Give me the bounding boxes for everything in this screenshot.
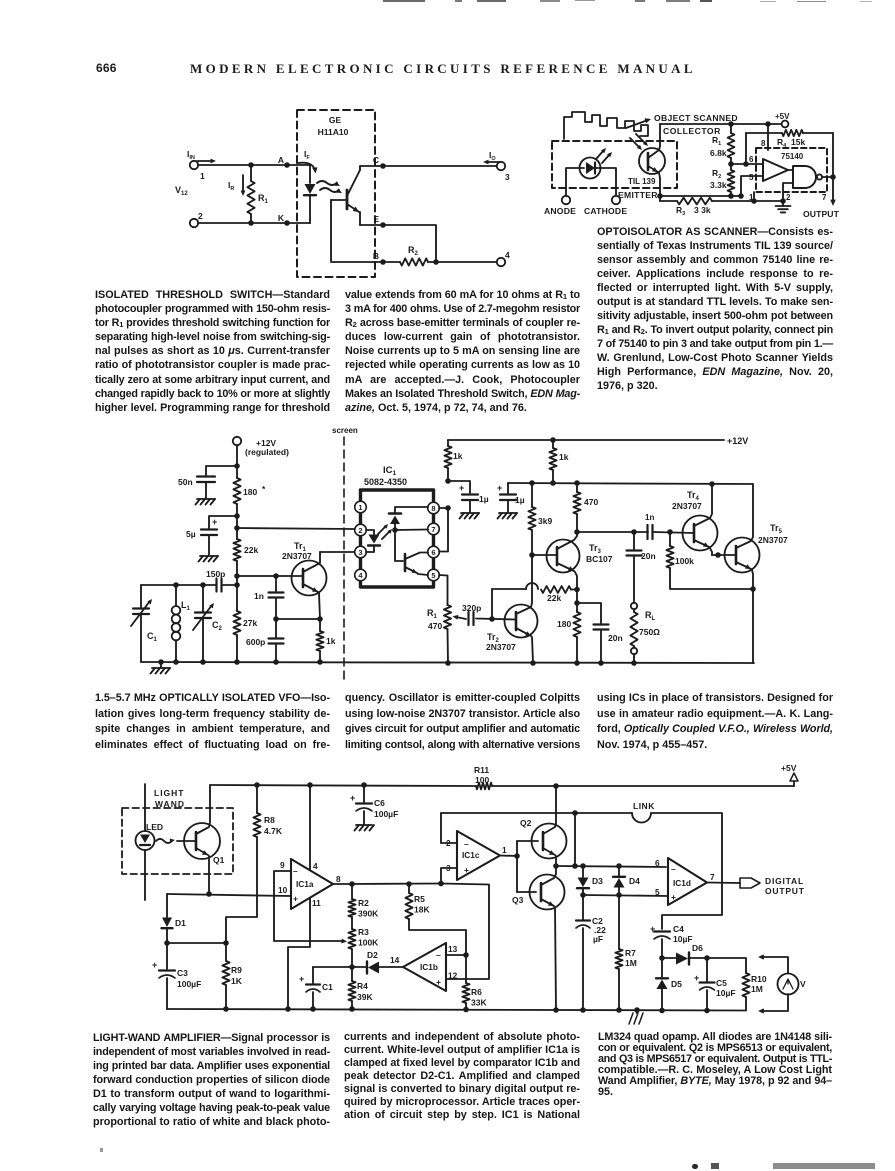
diode D1 (162, 894, 187, 943)
svg-text:50n: 50n (178, 477, 193, 487)
caption text: optoisolator as scanner (597, 225, 833, 393)
svg-text:R2: R2 (358, 898, 369, 908)
label GE H11A10 (318, 115, 349, 137)
svg-text:100K: 100K (358, 938, 379, 948)
svg-text:C2: C2 (212, 620, 223, 632)
resistor R4 39K (348, 967, 373, 1009)
ground circuit2 (776, 198, 791, 212)
svg-text:22k: 22k (547, 593, 561, 603)
light wand pen line (144, 784, 146, 900)
IC1b pin13 wire (446, 952, 469, 958)
label I_IN with arrow (187, 149, 216, 163)
svg-text:1: 1 (749, 193, 754, 202)
svg-text:1M: 1M (751, 984, 763, 994)
svg-text:1µ: 1µ (479, 494, 489, 504)
label LIGHT WAND (154, 788, 185, 809)
resistor R2 3.3k (710, 164, 734, 196)
link net to C4 (651, 813, 722, 929)
dashed package outline GE H11A10 (297, 110, 375, 277)
wire rail to IC1 pin 2 (234, 525, 354, 531)
svg-text:C: C (373, 155, 379, 165)
arrow to OBJECT SCANNED (626, 118, 651, 128)
svg-text:–: – (671, 864, 676, 874)
potentiometer R3 100K (348, 927, 379, 967)
pin 6 IC1 (428, 546, 440, 558)
digital output connector (740, 878, 760, 888)
wire 320p to Tr2 base (476, 616, 516, 622)
svg-text:+: + (464, 865, 469, 875)
capacitor C2 .22uF (576, 895, 606, 1010)
svg-text:15k: 15k (791, 137, 805, 147)
peak detector node (659, 955, 676, 961)
caption text: threshold switch col2 (345, 288, 580, 415)
svg-text:14: 14 (390, 955, 400, 965)
svg-text:33K: 33K (471, 998, 487, 1008)
wire pin 8 to 1k node (439, 505, 451, 511)
wire emitter down (657, 178, 663, 201)
wire base of phototransistor to node B (331, 200, 383, 262)
IC1a feedback loop to R3 wiper (274, 871, 347, 944)
pin 1 IC1 (355, 501, 367, 513)
IC1a pin labels (278, 860, 341, 908)
capacitor 1u (right) (497, 483, 525, 519)
svg-text:*: * (262, 484, 266, 494)
resistor 22k (233, 539, 258, 611)
svg-text:8: 8 (336, 874, 341, 884)
resistor R4 15k (746, 130, 833, 149)
node emitter Tr3 (574, 587, 580, 606)
svg-text:V: V (800, 979, 806, 989)
svg-text:1k: 1k (559, 452, 569, 462)
link vertical to output node (574, 813, 576, 866)
capacitor 5u (186, 513, 240, 561)
svg-text:IC1a: IC1a (296, 879, 314, 889)
dashed wand box (122, 808, 233, 874)
svg-text:LINK: LINK (633, 801, 655, 811)
transistor Tr1 (282, 541, 327, 619)
svg-text:R2: R2 (712, 168, 721, 180)
svg-text:10: 10 (278, 885, 288, 895)
light arrows into sensor (630, 134, 648, 150)
IC1 internal photodiode (389, 507, 428, 561)
wire collector to terminal 3 (383, 165, 497, 167)
label I_F with bent arrow (298, 149, 318, 174)
svg-text:R3: R3 (358, 927, 369, 937)
svg-text:R11: R11 (474, 765, 489, 775)
LED emission arrows (596, 148, 612, 163)
capacitor C1 (299, 967, 352, 1009)
svg-text:2: 2 (358, 526, 362, 535)
+12V top rail (448, 436, 748, 446)
caption text: vfo caption col3 (597, 691, 833, 753)
voltmeter bottom lead with arrow (758, 994, 788, 1014)
svg-text:1k: 1k (453, 451, 463, 461)
svg-text:100µF: 100µF (177, 979, 201, 989)
svg-text:ANODE: ANODE (544, 206, 576, 216)
resistor R7 1M (615, 895, 636, 1010)
clamp node wire to IC1d + (580, 892, 668, 898)
IC1c pin labels (446, 838, 507, 873)
LED source of TIL139 (580, 158, 601, 179)
wire to IC1c + input (441, 868, 457, 884)
svg-text:R2: R2 (408, 245, 419, 257)
node C (360, 155, 386, 169)
label screen (332, 426, 358, 435)
transistor Tr2 (486, 555, 538, 663)
svg-text:LIGHT: LIGHT (154, 788, 185, 798)
+5V terminal circuit2 (775, 112, 790, 127)
svg-text:100: 100 (475, 775, 489, 785)
svg-text:1M: 1M (625, 958, 637, 968)
resistor 470 (573, 483, 598, 532)
svg-text:3k9: 3k9 (538, 516, 552, 526)
wire input bottom (terminal 2 to LED cathode) (198, 222, 310, 224)
load resistor RL 750 ohm (630, 603, 660, 663)
resistor 27k (233, 611, 257, 662)
svg-text:+: + (459, 483, 464, 493)
svg-text:WAND: WAND (155, 799, 185, 809)
resistor R2 390K (348, 884, 379, 929)
IC1b pin labels (448, 944, 458, 981)
wire collector vertical (659, 124, 661, 146)
resistor 100k (666, 532, 753, 589)
resistor 22k with hop over collector riser (492, 583, 577, 603)
capacitor 20n (to RL) (627, 532, 656, 603)
svg-text:4: 4 (313, 861, 318, 871)
svg-text:+: + (299, 974, 304, 984)
wire pin 6 branch (439, 508, 448, 552)
wire pin 5 to R1 pot (439, 575, 448, 605)
capacitor 1n (emitter) (254, 576, 284, 619)
bottom ground bus circuit4 (167, 1006, 746, 1013)
svg-text:OUTPUT: OUTPUT (803, 209, 840, 219)
gate second input from ground net (783, 183, 793, 201)
svg-text:+: + (694, 973, 699, 983)
node B (373, 251, 386, 265)
svg-text:1n: 1n (645, 513, 654, 522)
svg-text:+: + (152, 960, 157, 970)
svg-text:3: 3 (358, 548, 362, 557)
svg-text:RL: RL (645, 610, 656, 622)
svg-text:Q1: Q1 (213, 855, 225, 865)
svg-text:V12: V12 (175, 185, 188, 197)
scan artifact dashes top edge (383, 0, 425, 2)
transistor Tr5 (725, 484, 789, 663)
pin 2 label (786, 193, 791, 202)
caption text: vfo caption col1 (95, 691, 330, 753)
svg-text:–: – (293, 866, 298, 876)
svg-text:Q3: Q3 (512, 895, 524, 905)
svg-text:10µF: 10µF (716, 988, 736, 998)
diode D3 (577, 866, 603, 895)
svg-text:3: 3 (505, 172, 510, 182)
svg-text:1k: 1k (326, 636, 336, 646)
IC1a V- line pin11 to bus (288, 898, 310, 1009)
svg-text:A: A (278, 155, 284, 165)
svg-text:5082-4350: 5082-4350 (364, 477, 407, 487)
svg-text:L1: L1 (181, 600, 191, 612)
node D1/C3/R9 (164, 940, 229, 946)
resistor R3 3.3k with bottom wire (660, 198, 783, 218)
wire rail to Tr1 base (237, 573, 302, 579)
svg-text:+: + (436, 977, 441, 987)
svg-text:D6: D6 (692, 943, 703, 953)
diode D4 (613, 866, 640, 895)
svg-text:3.3k: 3.3k (710, 180, 727, 190)
R1 wiper arrow with 320p (453, 615, 467, 620)
label COLLECTOR (663, 126, 721, 136)
wire 1n to emitter junction (273, 616, 323, 622)
svg-text:C1: C1 (147, 631, 158, 643)
wire Tr2 base riser to 22k (491, 589, 493, 619)
svg-text:+: + (212, 517, 217, 527)
op-amp IC1c (457, 831, 500, 880)
svg-text:BC107: BC107 (586, 554, 613, 564)
svg-text:100k: 100k (675, 556, 694, 566)
resistor R1 6.8k (710, 124, 734, 164)
dashed 75140 box (756, 148, 827, 192)
svg-text:R4: R4 (357, 981, 368, 991)
svg-text:320p: 320p (462, 603, 481, 613)
terminal 3 (497, 162, 510, 182)
svg-text:IC1c: IC1c (462, 850, 480, 860)
svg-text:8: 8 (431, 504, 435, 513)
svg-text:5: 5 (655, 887, 660, 897)
push-pull output node wire (553, 863, 666, 869)
voltmeter top lead with arrow (758, 954, 788, 973)
tank top wire (141, 582, 216, 588)
LINK jumper (632, 801, 655, 823)
resistor R6 33K (462, 955, 487, 1009)
resistor R11 100 (474, 765, 794, 789)
svg-text:R1: R1 (258, 193, 269, 205)
diode D2 (352, 950, 403, 974)
pin 3 IC1 (355, 546, 367, 558)
svg-text:1n: 1n (254, 591, 264, 601)
svg-text:1K: 1K (231, 976, 243, 986)
svg-text:D3: D3 (592, 876, 603, 886)
scan artifact marks bottom right (692, 1164, 698, 1169)
page number 666 (96, 61, 117, 75)
svg-text:IO: IO (489, 150, 496, 162)
svg-text:LED: LED (146, 822, 163, 832)
svg-text:600p: 600p (246, 637, 265, 647)
+12V regulated terminal (233, 437, 289, 457)
svg-text:75140: 75140 (781, 152, 804, 161)
resistor R10 1M (707, 958, 767, 1010)
IC1c output to Q2/Q3 bases (500, 841, 538, 892)
capacitor 600p (246, 619, 284, 662)
pin 2 IC1 (355, 524, 367, 536)
svg-text:4.7K: 4.7K (264, 826, 283, 836)
svg-text:D1: D1 (175, 918, 186, 928)
svg-text:Q2: Q2 (520, 818, 532, 828)
svg-text:39K: 39K (357, 992, 373, 1002)
svg-text:OBJECT SCANNED: OBJECT SCANNED (654, 113, 738, 123)
svg-text:+5V: +5V (775, 112, 790, 121)
capacitor C3 100uF (152, 943, 201, 1009)
capacitor 50n (178, 463, 240, 504)
terminal 4 (497, 250, 510, 266)
IC1d output wire (707, 882, 740, 885)
svg-text:+: + (671, 892, 676, 902)
wire top supply rail circuit2 (660, 121, 781, 127)
resistor R1 (247, 162, 268, 226)
svg-text:(regulated): (regulated) (245, 447, 289, 457)
svg-text:IC1b: IC1b (420, 962, 438, 972)
NAND gate 75140 (793, 166, 822, 188)
svg-text:IF: IF (304, 149, 310, 161)
svg-text:C3: C3 (177, 968, 188, 978)
potentiometer R1 470 (427, 605, 451, 663)
node base tap on rail (234, 573, 240, 579)
caption text: isolated threshold switch (95, 288, 330, 415)
svg-text:R7: R7 (625, 948, 636, 958)
IC1 internal LED (366, 530, 380, 552)
IC1b pin12 feedback loop (441, 884, 489, 980)
LED of optocoupler (304, 165, 316, 223)
svg-text:IC1: IC1 (383, 465, 397, 477)
svg-text:2N3707: 2N3707 (758, 535, 788, 545)
svg-text:+12V: +12V (727, 436, 748, 446)
svg-text:470: 470 (428, 621, 442, 631)
svg-text:10µF: 10µF (673, 934, 693, 944)
svg-text:R5: R5 (414, 894, 425, 904)
svg-text:7: 7 (431, 525, 435, 534)
capacitor C4 10uF (650, 924, 693, 958)
wire Tr1 collector to pin 3 (320, 551, 354, 553)
LED of wand (136, 822, 164, 850)
capacitor 1n (coupling) (645, 513, 694, 539)
resistor 3k9 (528, 483, 552, 555)
diode D6 (676, 943, 707, 965)
svg-text:6: 6 (431, 548, 435, 557)
IC1 internal light arrows (378, 524, 392, 539)
caption text: light wand col2 (344, 1031, 580, 1122)
svg-text:R8: R8 (264, 815, 275, 825)
node E (360, 214, 386, 228)
label TIL 139 (628, 177, 656, 186)
transistor Q2 (520, 786, 567, 866)
ground symbol VFO (151, 662, 171, 674)
svg-text:390K: 390K (358, 909, 379, 919)
svg-text:3 3k: 3 3k (694, 205, 711, 215)
svg-text:TIL 139: TIL 139 (628, 177, 656, 186)
svg-text:–: – (436, 950, 441, 960)
svg-text:6.8k: 6.8k (710, 148, 727, 158)
label DIGITAL OUTPUT (765, 876, 805, 896)
svg-text:–: – (464, 839, 469, 849)
svg-text:7: 7 (822, 193, 827, 202)
svg-text:D5: D5 (671, 979, 682, 989)
scanned object castellated outline (564, 112, 648, 139)
pin 8 wire (761, 124, 768, 150)
resistor 1k (left pullup) (444, 440, 462, 481)
transistor Q3 (512, 866, 565, 1010)
svg-text:5: 5 (431, 571, 435, 580)
comparator IC1b (403, 943, 446, 991)
resistor 180 (233, 478, 266, 539)
optical coupling arrows (317, 181, 342, 193)
svg-text:9: 9 (280, 860, 285, 870)
svg-text:2: 2 (786, 193, 791, 202)
svg-text:20n: 20n (641, 551, 656, 561)
wire cathode lead to terminal (600, 168, 616, 196)
running head title (190, 61, 690, 77)
ground symbol circuit4 (629, 1010, 643, 1024)
svg-text:2N3707: 2N3707 (486, 642, 516, 652)
svg-text:4: 4 (505, 250, 510, 260)
pin 5 IC1 (428, 569, 440, 581)
pin 7 label (822, 193, 827, 202)
transistor Q1 (177, 785, 225, 894)
capacitor 20n (emitter bypass) (577, 603, 623, 663)
svg-text:6: 6 (749, 155, 754, 164)
pin 8 IC1 (428, 502, 440, 514)
diode D5 (656, 958, 682, 1010)
svg-text:2N3707: 2N3707 (672, 501, 702, 511)
node K (278, 213, 290, 226)
node R3/D2/C1/R4 (349, 964, 355, 970)
svg-text:R10: R10 (751, 974, 767, 984)
svg-text:8: 8 (761, 139, 766, 148)
svg-text:+: + (497, 483, 502, 493)
pin 7 IC1 (428, 523, 440, 535)
variable capacitor C2 (193, 585, 223, 662)
resistor R5 18K (405, 884, 466, 955)
optical arrow LED to Q1 (156, 839, 175, 844)
dashed TIL139 package box (552, 141, 677, 188)
IC1 internal phototransistor (405, 553, 428, 576)
resistor 1k (right pullup) (549, 440, 568, 483)
terminal 1 (190, 161, 205, 181)
phototransistor of H11A10 (347, 166, 360, 225)
capacitor 1u (left) (445, 478, 489, 518)
resistor R2 (383, 245, 428, 266)
svg-text:5µ: 5µ (186, 529, 196, 539)
svg-text:µF: µF (593, 934, 603, 944)
svg-text:2N3707: 2N3707 (282, 551, 312, 561)
svg-text:D2: D2 (367, 950, 378, 960)
svg-text:6: 6 (655, 858, 660, 868)
transistor Tr4 (672, 484, 718, 555)
node 150p tap on rail (234, 582, 240, 588)
wire Tr4 emitter to Tr5 base (712, 552, 736, 558)
svg-text:H11A10: H11A10 (318, 127, 349, 137)
svg-text:20n: 20n (608, 633, 623, 643)
pin 1 stub (749, 192, 757, 204)
voltmeter V (778, 974, 807, 995)
svg-text:27k: 27k (243, 618, 257, 628)
svg-text:screen: screen (332, 426, 358, 435)
svg-text:IR: IR (228, 180, 234, 192)
label EMITTER (618, 190, 658, 200)
svg-text:5: 5 (749, 173, 754, 182)
svg-text:18K: 18K (414, 905, 430, 915)
wire input top (terminal 1 to LED anode) (198, 164, 310, 166)
phototransistor TIL139 (639, 146, 665, 178)
svg-text:E: E (373, 214, 379, 224)
IC1a output node (333, 881, 355, 887)
pin 4 IC1 (355, 569, 367, 581)
feedback vertical to R4 (745, 133, 747, 164)
svg-text:180: 180 (243, 487, 257, 497)
signal wire IC1a out to right (352, 881, 444, 887)
svg-text:3: 3 (446, 863, 451, 873)
variable capacitor C1 (131, 585, 158, 662)
svg-text:R6: R6 (471, 987, 482, 997)
svg-text:1: 1 (200, 171, 205, 181)
